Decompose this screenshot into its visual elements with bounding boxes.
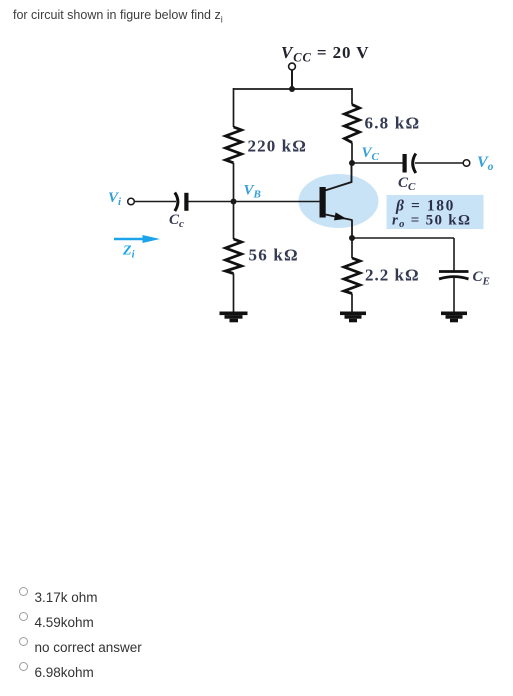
answer option 3 [19, 636, 142, 655]
wire VB to 56k [233, 202, 235, 240]
capacitor CE [439, 272, 469, 280]
resistor 2.2k [344, 258, 360, 294]
node emitter [349, 235, 355, 241]
svg-text:Zi: Zi [122, 244, 135, 261]
node VB [231, 199, 237, 205]
transistor highlight ellipse [299, 174, 379, 228]
svg-text:Cc: Cc [169, 212, 184, 230]
answer option 4 [19, 661, 94, 680]
ground right [441, 312, 467, 323]
wire right branch upper [351, 88, 353, 105]
ground left [220, 312, 248, 323]
emitter drop [351, 220, 353, 239]
answer option 2 [19, 611, 94, 630]
ground middle [340, 312, 366, 323]
wire input cap to VB node [189, 201, 234, 203]
wire cap to Vo [415, 162, 463, 164]
node Vc [349, 160, 355, 166]
wire emitter to 2.2k [351, 238, 353, 258]
svg-text:6.8 kΩ: 6.8 kΩ [365, 114, 421, 133]
emitter arrowhead [334, 212, 347, 220]
svg-text:CC: CC [398, 175, 416, 193]
resistor 6.8k [345, 105, 360, 143]
Vcc terminal [289, 63, 296, 70]
terminal Vo [463, 160, 470, 167]
wire 56k to ground [233, 274, 235, 313]
wire left branch upper [233, 88, 235, 127]
svg-text:VC: VC [362, 145, 380, 163]
wire CE to ground [453, 278, 455, 313]
wire Vcc drop [291, 70, 293, 89]
wire Vc to output cap [352, 162, 403, 164]
wire Vi to input cap [135, 201, 177, 203]
svg-text:220 kΩ: 220 kΩ [248, 137, 307, 156]
svg-text:VB: VB [244, 183, 261, 201]
svg-text:2.2 kΩ: 2.2 kΩ [365, 266, 420, 285]
svg-text:Vi: Vi [108, 190, 122, 208]
svg-text:VCC = 20 V: VCC = 20 V [281, 43, 369, 65]
svg-text:Vo: Vo [477, 154, 494, 173]
capacitor Cc output [403, 154, 416, 174]
wire emitter bus [352, 237, 454, 239]
wire VB to base [234, 201, 321, 203]
svg-text:CE: CE [473, 269, 490, 288]
wire 2.2k to ground [351, 294, 353, 313]
resistor 220k [226, 127, 242, 163]
question title [13, 8, 223, 25]
terminal Vi [128, 198, 135, 205]
answer option 1 [19, 586, 98, 605]
junction Vcc bus [289, 86, 295, 92]
svg-text:56 kΩ: 56 kΩ [249, 246, 299, 265]
wire 6.8k to Vc [351, 143, 353, 164]
wire left branch to VB [233, 163, 235, 202]
beta/ro highlight box [387, 195, 484, 229]
Zi arrow [114, 235, 160, 243]
capacitor Cc input [175, 193, 189, 212]
collector wire [325, 163, 352, 191]
wire CE branch down [453, 238, 455, 272]
base bar [320, 187, 326, 218]
wire top bus [234, 88, 353, 90]
emitter wire [326, 215, 353, 221]
transistor Q1 [320, 163, 353, 238]
resistor 56k [226, 239, 242, 274]
